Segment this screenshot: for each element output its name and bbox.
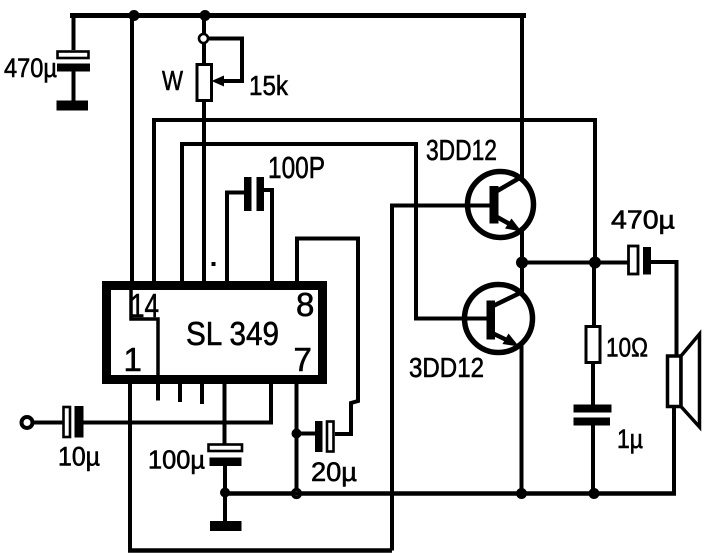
svg-text:100µ: 100µ xyxy=(148,445,205,475)
wire input to 10u xyxy=(33,421,63,425)
capacitor C1 470u bottom plate (solid) xyxy=(57,64,90,72)
svg-text:10µ: 10µ xyxy=(58,442,100,472)
node junction Q2 emitter on rail xyxy=(516,488,527,499)
transistor Q1 emitter diagonal xyxy=(497,217,515,227)
svg-text:3DD12: 3DD12 xyxy=(409,352,484,383)
capacitor 470u output left plate (hollow) xyxy=(629,246,639,274)
wire output node to 470u cap xyxy=(522,261,628,265)
wire internal step pin14 to pin1 stub xyxy=(131,284,158,383)
node junction 1u on rail xyxy=(589,488,600,499)
wire Q2 emitter down to rail xyxy=(520,343,524,494)
resistor 10ohm body xyxy=(586,327,600,363)
svg-text:1µ: 1µ xyxy=(617,424,643,454)
wire IC pin to 100u cap xyxy=(223,381,227,444)
wire 470u to speaker xyxy=(651,262,677,356)
svg-text:SL 349: SL 349 xyxy=(186,315,279,352)
node junction at 10ohm top xyxy=(589,257,601,269)
svg-text:10Ω: 10Ω xyxy=(606,333,648,363)
wire Q1 emitter to output node xyxy=(520,229,524,263)
wire 10u to IC pin xyxy=(84,381,272,423)
wire collector vertical from rail to Q1 xyxy=(520,13,524,180)
capacitor 20u left plate (solid) xyxy=(315,421,323,452)
node junction on rail (pot line) xyxy=(200,10,211,21)
IC U1 SL349 body xyxy=(107,286,323,380)
speaker horn trapezoid xyxy=(681,334,700,427)
potentiometer W body xyxy=(197,65,212,101)
capacitor 1u top plate (solid) xyxy=(574,405,612,413)
pin stub below IC 2 xyxy=(178,381,182,402)
wire left vertical from rail to IC pin 14 area xyxy=(130,15,134,286)
wire speaker bottom to rail xyxy=(672,407,676,494)
node junction pin7 / 20u xyxy=(292,429,302,439)
wire top supply rail xyxy=(70,13,526,18)
capacitor 10u left plate (hollow) xyxy=(64,407,71,437)
transistor Q1 base wire inside xyxy=(466,204,490,208)
svg-text:W: W xyxy=(162,65,183,96)
wire pin1 long line down to bottom-left corner xyxy=(128,380,132,551)
transistor Q1 base bar xyxy=(490,186,499,224)
wire 10ohm to 1u xyxy=(591,363,595,406)
wire Q1 base line from x392 xyxy=(392,206,466,551)
wire Q2 collector to output node xyxy=(520,263,524,294)
transistor Q2 base bar xyxy=(487,301,496,340)
transistor Q2 3DD12 circle xyxy=(465,285,533,353)
transistor Q2 collector diagonal xyxy=(493,292,522,306)
input terminal open circle xyxy=(22,417,33,428)
capacitor C1 470u top plate (hollow) xyxy=(58,52,89,59)
node open circle above potentiometer xyxy=(199,34,208,43)
svg-text:20µ: 20µ xyxy=(311,457,357,487)
svg-text:470µ: 470µ xyxy=(611,205,675,235)
transistor Q1 3DD12 circle xyxy=(468,172,534,238)
node ring junction pin7 on rail xyxy=(293,490,301,498)
capacitor C1 470u top-left: lead from rail xyxy=(72,14,76,50)
scan speck node near pot wire xyxy=(212,262,216,266)
svg-text:1: 1 xyxy=(124,341,142,378)
wire 100P right lead xyxy=(264,190,272,286)
transistor Q1 emitter arrowhead xyxy=(505,219,522,232)
wire feedback rail (mid bottom) xyxy=(225,491,676,496)
capacitor 470u output right plate (solid) xyxy=(643,247,651,275)
ground bar below 100u xyxy=(210,521,242,531)
transistor Q2 emitter arrowhead xyxy=(503,334,520,347)
wire 100u down to junction and ground xyxy=(223,466,227,521)
pin stub below IC 3 xyxy=(200,381,204,404)
capacitor 1u bottom plate (solid) xyxy=(574,418,611,426)
wire pin8 loop to 20u cap xyxy=(297,239,358,435)
wire bottom rail xyxy=(128,548,392,553)
svg-text:100P: 100P xyxy=(268,150,325,185)
svg-text:14: 14 xyxy=(130,287,159,324)
wiper arrowhead xyxy=(212,76,225,87)
wire 1u down to rail xyxy=(591,426,595,494)
capacitor 100P right plate xyxy=(257,177,265,211)
capacitor 100u bottom plate (solid) xyxy=(210,458,242,467)
wire C1 to ground xyxy=(72,72,76,102)
speaker frame rectangle xyxy=(668,356,682,407)
capacitor 20u right plate (hollow) xyxy=(327,422,334,452)
capacitor 10u right plate (solid) xyxy=(75,406,84,438)
node output junction xyxy=(516,257,528,269)
ground bar below C1 xyxy=(57,101,89,111)
wire inner horizontal line 1 (bootstrap to output) xyxy=(154,120,595,286)
pin stub below IC (from step) xyxy=(156,381,160,401)
wire 20u left lead xyxy=(297,432,316,436)
capacitor 100P left plate xyxy=(244,177,252,211)
node junction below 100u xyxy=(220,488,230,498)
wire pot bottom to IC xyxy=(202,101,206,287)
transistor Q1 collector diagonal xyxy=(497,177,522,192)
node junction on rail (left line) xyxy=(129,10,140,21)
wire pot circle to body xyxy=(202,43,206,65)
transistor Q2 emitter diagonal xyxy=(492,333,511,342)
wiper loop wire xyxy=(208,39,242,82)
wire inner horizontal line 2 (to Q2 base) xyxy=(182,144,487,319)
capacitor 100u top plate (hollow) xyxy=(209,445,243,452)
wire pin7 down xyxy=(295,381,299,494)
svg-text:3DD12: 3DD12 xyxy=(426,135,497,167)
wire 10ohm branch down xyxy=(592,263,596,328)
svg-text:7: 7 xyxy=(294,341,312,378)
svg-text:8: 8 xyxy=(296,286,314,323)
svg-text:15k: 15k xyxy=(249,70,289,101)
wire 100P left lead xyxy=(227,193,244,287)
svg-text:470µ: 470µ xyxy=(4,53,57,83)
wire pot top lead xyxy=(202,15,206,35)
